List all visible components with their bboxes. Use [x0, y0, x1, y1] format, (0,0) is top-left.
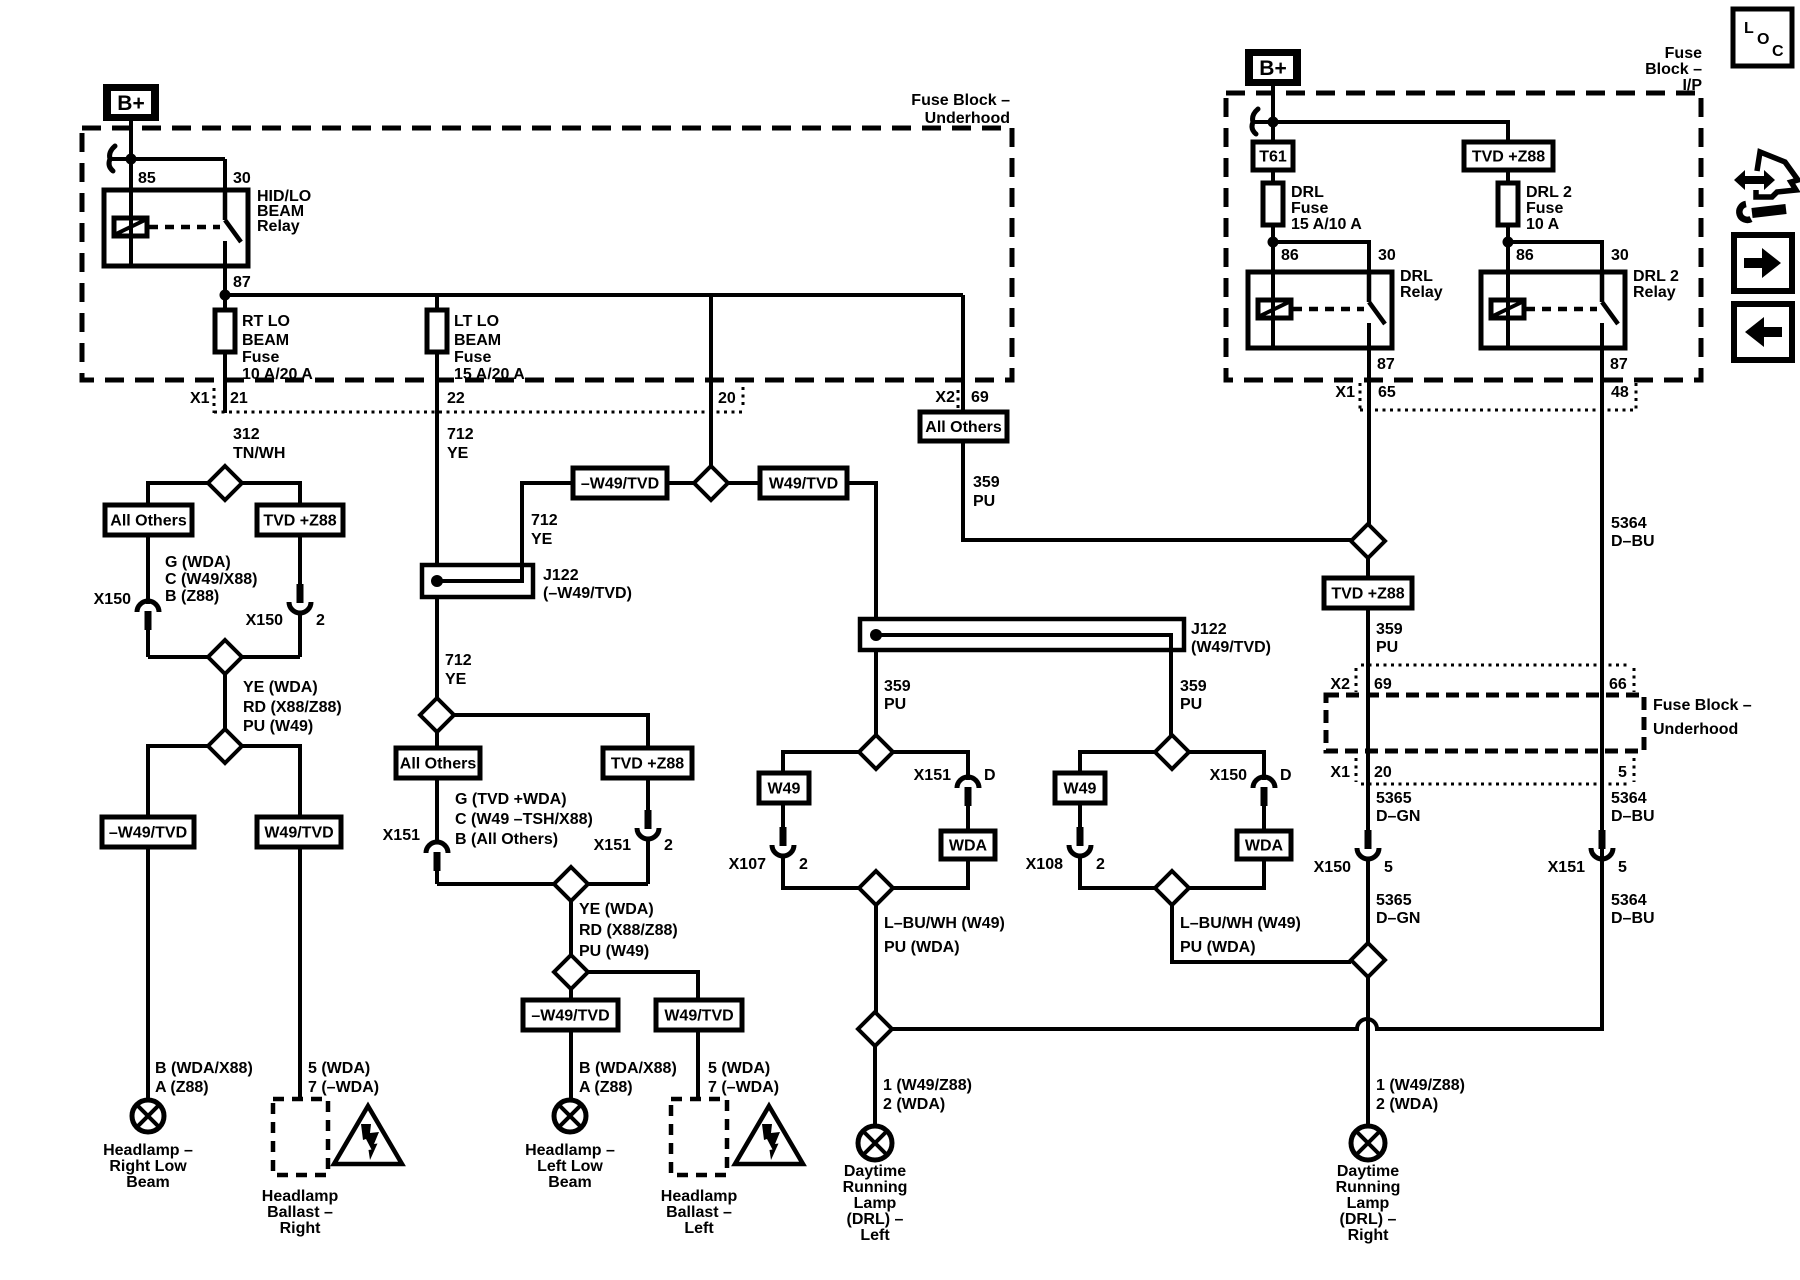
svg-text:2: 2 — [664, 837, 673, 854]
svg-text:5365: 5365 — [1376, 790, 1412, 807]
svg-text:B (WDA/X88): B (WDA/X88) — [579, 1060, 677, 1077]
label DRL 2 Relay — [1633, 268, 1679, 301]
svg-text:PU: PU — [884, 696, 906, 713]
wire bus to RT LO BEAM fuse — [223, 295, 227, 310]
label DRL Relay — [1400, 268, 1443, 301]
label Headlamp Ballast - Left — [661, 1188, 738, 1237]
wire label L-BU/WH PU (right) — [1180, 915, 1301, 956]
bus wire from relay 87 across to X2-69 drop — [225, 293, 963, 297]
svg-text:I/P: I/P — [1682, 77, 1702, 94]
svg-text:Fuse: Fuse — [454, 349, 491, 366]
svg-text:5: 5 — [1618, 859, 1627, 876]
svg-text:TVD +Z88: TVD +Z88 — [611, 756, 684, 773]
svg-text:30: 30 — [1611, 247, 1629, 264]
svg-text:X1: X1 — [1330, 764, 1350, 781]
splice diamond S9 (DRL right) — [1155, 735, 1189, 769]
svg-text:B+: B+ — [117, 92, 144, 115]
wire label 359 PU (left of J122) — [884, 678, 911, 713]
svg-text:2: 2 — [1096, 856, 1105, 873]
svg-text:DRL 2: DRL 2 — [1526, 184, 1572, 201]
svg-text:L–BU/WH (W49): L–BU/WH (W49) — [1180, 915, 1301, 932]
svg-text:1 (W49/Z88): 1 (W49/Z88) — [1376, 1077, 1465, 1094]
wire X151-2 leg to S6 — [587, 882, 648, 886]
svg-text:1 (W49/Z88): 1 (W49/Z88) — [883, 1077, 972, 1094]
svg-text:5 (WDA): 5 (WDA) — [308, 1060, 370, 1077]
svg-text:L: L — [1744, 20, 1754, 37]
option box All Others (top, circuit 359) — [920, 412, 1007, 441]
svg-text:X150: X150 — [246, 612, 283, 629]
wire LT fuse down to J122 splice — [435, 352, 439, 565]
svg-text:J122: J122 — [543, 567, 579, 584]
svg-text:A (Z88): A (Z88) — [155, 1079, 209, 1096]
svg-text:(DRL) –: (DRL) – — [1340, 1211, 1397, 1228]
fuse RT LO BEAM 10A/20A — [215, 310, 313, 383]
svg-text:712: 712 — [447, 426, 474, 443]
wire S9 to X150-D connector — [1189, 752, 1264, 780]
option box -W49/TVD (top middle) — [573, 468, 667, 498]
splice J122 (-W49/TVD) — [422, 483, 573, 597]
connector tick X2-66 — [1633, 668, 1636, 692]
wire W49 to X107 connector — [781, 803, 785, 829]
wire bus drop at terminal 20 — [709, 295, 713, 466]
wire TVD+Z88 to X151-2 — [646, 778, 650, 812]
svg-text:Right: Right — [280, 1220, 322, 1237]
svg-text:RD (X88/Z88): RD (X88/Z88) — [579, 922, 678, 939]
wire S6 to S7 — [569, 900, 573, 956]
svg-text:5365: 5365 — [1376, 892, 1412, 909]
svg-text:T61: T61 — [1259, 149, 1287, 166]
lamp Headlamp Left Low Beam — [554, 1100, 586, 1132]
svg-text:5364: 5364 — [1611, 790, 1647, 807]
svg-text:W49: W49 — [1064, 781, 1097, 798]
option box TVD +Z88 (middle) — [603, 748, 692, 778]
connector X108 terminal 2 — [1026, 827, 1105, 873]
relay DRL 2 — [1481, 272, 1625, 348]
svg-text:PU (WDA): PU (WDA) — [1180, 939, 1256, 956]
terminal label 5/7 (ballast right) — [308, 1060, 379, 1096]
svg-text:7 (–WDA): 7 (–WDA) — [708, 1079, 779, 1096]
connector tick X2-69 (right) — [1355, 668, 1358, 692]
component Headlamp Ballast Left (dashed box) — [671, 1099, 727, 1175]
fuse block underhood enclosure (dashed) — [82, 128, 1012, 380]
svg-text:PU (WDA): PU (WDA) — [884, 939, 960, 956]
option box W49 (left) — [759, 773, 809, 803]
option box WDA (right) — [1237, 831, 1291, 859]
svg-text:C (W49 –TSH/X88): C (W49 –TSH/X88) — [455, 811, 593, 828]
svg-text:359: 359 — [884, 678, 911, 695]
splice diamond S11 (DRL left lamp) — [858, 1012, 892, 1046]
splice diamond S7 — [554, 955, 588, 989]
label Fuse Block - I/P — [1645, 45, 1702, 94]
svg-text:86: 86 — [1516, 247, 1534, 264]
splice diamond S6 — [554, 867, 588, 901]
wire S7 to W49/TVD (lower middle) — [588, 972, 698, 1000]
option box W49/TVD (top middle) — [760, 468, 847, 498]
svg-text:D: D — [984, 767, 996, 784]
splice diamond S8 (DRL left) — [859, 735, 893, 769]
svg-text:2: 2 — [316, 612, 325, 629]
svg-text:Headlamp: Headlamp — [661, 1188, 738, 1205]
label Fuse Block - Underhood (right) — [1653, 697, 1752, 738]
svg-text:2: 2 — [799, 856, 808, 873]
label Headlamp - Right Low Beam — [103, 1142, 193, 1191]
svg-text:TVD +Z88: TVD +Z88 — [263, 513, 336, 530]
svg-text:30: 30 — [1378, 247, 1396, 264]
connector face line X1 strip — [214, 411, 743, 414]
svg-text:All Others: All Others — [925, 419, 1002, 436]
junction DRL2 fuse to pin 30 — [1503, 237, 1514, 248]
svg-text:W49/TVD: W49/TVD — [769, 476, 838, 493]
svg-text:Beam: Beam — [126, 1174, 170, 1191]
svg-text:RT LO: RT LO — [242, 313, 290, 330]
svg-text:Fuse: Fuse — [1291, 200, 1328, 217]
svg-text:5364: 5364 — [1611, 515, 1647, 532]
svg-text:X2: X2 — [1330, 676, 1350, 693]
connector face line X1 (right) — [1361, 783, 1627, 786]
svg-text:Relay: Relay — [1400, 284, 1443, 301]
label J122 (-W49/TVD) — [543, 567, 632, 602]
terminal label 1/2 (DRL right) — [1376, 1077, 1465, 1113]
svg-text:X150: X150 — [1314, 859, 1351, 876]
svg-text:PU: PU — [1376, 639, 1398, 656]
option box All Others (middle) — [396, 748, 480, 778]
svg-text:B (WDA/X88): B (WDA/X88) — [155, 1060, 253, 1077]
splice diamond S14 (DRL right lamp) — [1351, 943, 1385, 977]
svg-text:Underhood: Underhood — [925, 110, 1010, 127]
svg-text:Headlamp –: Headlamp – — [525, 1142, 615, 1159]
wire label 359 PU (right section) — [1376, 621, 1403, 656]
wire label 5365 D-GN (lower) — [1376, 892, 1420, 927]
svg-text:X1: X1 — [190, 390, 210, 407]
wire TVD +Z88 to X150-5 — [1366, 608, 1370, 834]
svg-text:Daytime: Daytime — [844, 1163, 906, 1180]
wire junction to TVD +Z88 fuse feed — [1253, 122, 1508, 142]
svg-text:Fuse Block –: Fuse Block – — [911, 92, 1010, 109]
svg-text:Beam: Beam — [548, 1174, 592, 1191]
svg-text:22: 22 — [447, 390, 465, 407]
wire S2 to S3 — [223, 674, 227, 731]
splice diamond S1 on circuit 312 — [208, 466, 242, 500]
option box WDA (left) — [941, 831, 995, 859]
svg-text:X151: X151 — [914, 767, 951, 784]
svg-text:712: 712 — [445, 652, 472, 669]
svg-text:G (WDA): G (WDA) — [165, 554, 231, 571]
terminal label B/A (right low beam) — [155, 1060, 253, 1096]
connector tick after terminal 20 — [742, 387, 745, 409]
fuse block underhood pass-through (dashed) — [1326, 695, 1644, 751]
wire All Others to X151 connector — [435, 778, 439, 843]
wire label 5364 D-BU (upper) — [1611, 515, 1655, 550]
connector tick X1-21 — [213, 388, 216, 413]
wire S14 to DRL right lamp — [1366, 977, 1370, 1126]
svg-text:(DRL) –: (DRL) – — [847, 1211, 904, 1228]
svg-text:D–BU: D–BU — [1611, 533, 1655, 550]
terminal list G/C/B (left) — [165, 554, 257, 605]
svg-text:15 A/20 A: 15 A/20 A — [454, 366, 525, 383]
svg-text:TVD +Z88: TVD +Z88 — [1472, 149, 1545, 166]
label Daytime Running Lamp (DRL) - Left — [843, 1163, 908, 1244]
wire relay pin 87 down — [223, 266, 227, 295]
connector X151 (middle left) — [383, 827, 448, 871]
option box -W49/TVD (lower middle) — [523, 1000, 618, 1030]
junction node at relay 87 bus — [220, 290, 231, 301]
svg-text:Ballast –: Ballast – — [666, 1204, 732, 1221]
svg-text:X151: X151 — [383, 827, 420, 844]
svg-text:2 (WDA): 2 (WDA) — [883, 1096, 945, 1113]
svg-text:Fuse: Fuse — [1665, 45, 1702, 62]
svg-text:20: 20 — [1374, 764, 1392, 781]
option box -W49/TVD (left) — [102, 817, 194, 847]
fuse DRL2 10A — [1498, 183, 1518, 225]
svg-text:Relay: Relay — [257, 218, 300, 235]
wire junction to DRL2 relay pin 30 — [1508, 242, 1602, 272]
connector X151 terminal 2 (middle) — [594, 810, 673, 854]
lamp Daytime Running Lamp DRL Left — [858, 1126, 892, 1160]
wire label 712 YE (branch) — [531, 512, 558, 548]
svg-text:87: 87 — [233, 274, 251, 291]
tap curl on B+ feed (right) — [1252, 109, 1258, 134]
svg-text:Fuse: Fuse — [242, 349, 279, 366]
terminal label 5/7 (ballast left) — [708, 1060, 779, 1096]
svg-text:DRL 2: DRL 2 — [1633, 268, 1679, 285]
connector X150 terminal D — [1210, 767, 1292, 806]
svg-text:69: 69 — [971, 389, 989, 406]
wire W49 to X108 connector — [1078, 803, 1082, 829]
connector X151 terminal D — [914, 767, 996, 806]
svg-text:B+: B+ — [1259, 57, 1286, 80]
connector X107 terminal 2 — [729, 827, 808, 873]
svg-text:X108: X108 — [1026, 856, 1063, 873]
power symbol B+ (left) — [103, 84, 159, 121]
wire 359 PU through J122 to S8 — [874, 650, 878, 736]
option box W49 (right) — [1055, 773, 1105, 803]
svg-text:(–W49/TVD): (–W49/TVD) — [543, 585, 632, 602]
svg-text:Right: Right — [1348, 1227, 1390, 1244]
svg-text:5: 5 — [1384, 859, 1393, 876]
wire S3 to -W49/TVD box — [148, 746, 208, 817]
wire TVD+Z88 to DRL2 fuse — [1506, 170, 1510, 183]
svg-text:B (All Others): B (All Others) — [455, 831, 558, 848]
fuse LT LO BEAM 15A/20A — [427, 310, 525, 383]
svg-text:5: 5 — [1618, 764, 1627, 781]
svg-text:Underhood: Underhood — [1653, 721, 1738, 738]
power symbol B+ (right) — [1245, 49, 1301, 86]
svg-text:69: 69 — [1374, 676, 1392, 693]
wire label 712 YE (below J122) — [445, 652, 472, 688]
wire S8 to X151-D connector — [893, 752, 968, 780]
wire WDA to S12 — [1189, 859, 1264, 888]
svg-text:312: 312 — [233, 426, 260, 443]
lamp Headlamp Right Low Beam — [132, 1100, 164, 1132]
junction on B+ feed (right) — [1268, 117, 1279, 128]
wire S8 to W49 box — [783, 752, 859, 773]
wire label 359 PU (right of J122) — [1180, 678, 1207, 713]
wire label 359 PU (top) — [973, 474, 1000, 510]
svg-text:D–BU: D–BU — [1611, 808, 1655, 825]
wire X151-D to WDA box — [966, 806, 970, 831]
wire S9a down to S11 — [874, 905, 878, 1012]
splice diamond S5 — [420, 698, 454, 732]
splice diamond S9a — [859, 871, 893, 905]
svg-text:YE: YE — [447, 445, 469, 462]
svg-text:D–BU: D–BU — [1611, 910, 1655, 927]
svg-text:C: C — [1772, 43, 1784, 60]
wire B+ to T61 fuse — [1271, 86, 1275, 142]
svg-text:LT LO: LT LO — [454, 313, 499, 330]
svg-text:YE (WDA): YE (WDA) — [243, 679, 318, 696]
svg-text:YE: YE — [531, 531, 553, 548]
terminal label B/A (left low beam) — [579, 1060, 677, 1096]
svg-text:D–GN: D–GN — [1376, 910, 1420, 927]
wire X151-2 down — [646, 837, 650, 884]
svg-text:Left Low: Left Low — [537, 1158, 603, 1175]
svg-text:X2: X2 — [935, 389, 955, 406]
svg-text:C (W49/X88): C (W49/X88) — [165, 571, 257, 588]
wire label 712 YE (below 22) — [447, 426, 474, 462]
svg-text:J122: J122 — [1191, 621, 1227, 638]
wire RT fuse to connector X1-21 — [223, 352, 227, 413]
wire X107 to S9a — [783, 856, 859, 888]
terminal list G/C/B (middle) — [455, 791, 593, 848]
wire -W49/TVD to S4 — [667, 481, 694, 485]
wire DRL2 relay 87 to connector X1-48 — [1600, 348, 1604, 413]
component Headlamp Ballast Right (dashed box) — [273, 1099, 328, 1175]
label DRL Fuse 15A/10A — [1291, 184, 1362, 233]
tap curl on B+ feed (left) — [109, 146, 115, 171]
wire 712 YE through to S5 — [435, 597, 439, 699]
svg-text:YE (WDA): YE (WDA) — [579, 901, 654, 918]
wire All Others 359 PU to diamond S10 — [963, 441, 1351, 540]
wire X150-5 to diamond S14 — [1366, 859, 1370, 944]
wire X150-2 down — [298, 613, 302, 657]
wire to Headlamp Right Low Beam — [146, 847, 150, 1100]
connector X150 terminal 5 — [1314, 830, 1393, 876]
connector face line X1 (I/P) — [1360, 409, 1636, 412]
wire X150 to splice S2 — [146, 630, 150, 657]
svg-text:Running: Running — [1336, 1179, 1401, 1196]
wire WDA to S9a — [893, 859, 968, 888]
svg-text:X1: X1 — [1335, 384, 1355, 401]
svg-text:712: 712 — [531, 512, 558, 529]
label DRL 2 Fuse 10A — [1526, 184, 1572, 233]
svg-text:(W49/TVD): (W49/TVD) — [1191, 639, 1271, 656]
svg-text:–W49/TVD: –W49/TVD — [581, 476, 659, 493]
svg-text:Left: Left — [860, 1227, 890, 1244]
wire label YE/RD/PU (left) — [243, 679, 342, 735]
wire X150 leg to S2 — [148, 655, 208, 659]
svg-text:10 A/20 A: 10 A/20 A — [242, 366, 313, 383]
connector face line X2 (right) — [1361, 664, 1627, 667]
wire S5 to All Others (middle) — [435, 731, 439, 748]
relay HID/LO BEAM — [104, 190, 248, 266]
connector tick X1-20 — [1355, 758, 1358, 782]
svg-text:PU (W49): PU (W49) — [243, 718, 313, 735]
wire T61 to DRL fuse — [1271, 170, 1275, 183]
svg-text:W49/TVD: W49/TVD — [264, 825, 333, 842]
svg-text:All Others: All Others — [400, 756, 477, 773]
option box W49/TVD (lower middle) — [656, 1000, 742, 1030]
label HID/LO BEAM Relay — [257, 188, 311, 235]
option box TVD +Z88 (left) — [257, 505, 343, 535]
svg-text:X151: X151 — [1548, 859, 1585, 876]
wire label 5364 D-BU (middle) — [1611, 790, 1655, 825]
svg-text:5 (WDA): 5 (WDA) — [708, 1060, 770, 1077]
icon swap arrows with wrench — [1734, 152, 1798, 220]
splice diamond S3 — [208, 729, 242, 763]
svg-text:PU: PU — [973, 493, 995, 510]
wire to Headlamp Ballast Left — [696, 1030, 700, 1099]
svg-text:7 (–WDA): 7 (–WDA) — [308, 1079, 379, 1096]
label Fuse Block - Underhood — [911, 92, 1010, 127]
wire DRL fuse to relay coil 86 — [1271, 225, 1275, 348]
wire S4 to W49/TVD — [728, 481, 760, 485]
svg-text:L–BU/WH (W49): L–BU/WH (W49) — [884, 915, 1005, 932]
icon arrow right box — [1734, 235, 1792, 291]
svg-text:PU (W49): PU (W49) — [579, 943, 649, 960]
svg-text:87: 87 — [1610, 356, 1628, 373]
option box TVD +Z88 (right) — [1324, 578, 1412, 608]
wire S9 to W49 box (right) — [1080, 752, 1155, 773]
svg-text:YE: YE — [445, 671, 467, 688]
svg-text:86: 86 — [1281, 247, 1299, 264]
wire junction to relay pin 30 — [110, 157, 225, 161]
svg-text:D–GN: D–GN — [1376, 808, 1420, 825]
wire X150-2 leg to S2 — [242, 655, 300, 659]
label Daytime Running Lamp (DRL) - Right — [1336, 1163, 1401, 1244]
svg-text:TVD +Z88: TVD +Z88 — [1331, 586, 1404, 603]
wire DRL2 fuse to relay coil 86 — [1506, 225, 1510, 348]
wire S1 to TVD +Z88 box — [242, 483, 300, 505]
connector tick X2-69 — [957, 390, 960, 410]
svg-text:Fuse Block –: Fuse Block – — [1653, 697, 1752, 714]
svg-text:Running: Running — [843, 1179, 908, 1196]
option box TVD +Z88 (I/P) — [1464, 142, 1553, 170]
label Headlamp Ballast - Right — [262, 1188, 339, 1237]
svg-text:66: 66 — [1609, 676, 1627, 693]
svg-text:21: 21 — [230, 390, 248, 407]
connector X151 terminal 5 — [1548, 830, 1627, 876]
svg-text:X151: X151 — [594, 837, 631, 854]
svg-text:Daytime: Daytime — [1337, 1163, 1399, 1180]
wire X151 to S6 — [435, 871, 439, 884]
splice diamond S12 — [1155, 871, 1189, 905]
svg-text:15 A/10 A: 15 A/10 A — [1291, 216, 1362, 233]
svg-text:WDA: WDA — [1245, 838, 1284, 855]
wire W49/TVD box to J122 W49/TVD — [847, 483, 876, 619]
svg-text:2 (WDA): 2 (WDA) — [1376, 1096, 1438, 1113]
connector X150 (left, female) — [94, 591, 159, 630]
fuse block I/P enclosure (dashed) — [1226, 93, 1701, 380]
label Headlamp - Left Low Beam — [525, 1142, 615, 1191]
svg-text:–W49/TVD: –W49/TVD — [531, 1008, 609, 1025]
svg-text:Block –: Block – — [1645, 61, 1702, 78]
option box All Others (left) — [105, 505, 192, 535]
wire S11 to DRL left lamp — [873, 1046, 877, 1126]
splice J122 (W49/TVD) — [860, 619, 1184, 650]
splice diamond S2 — [208, 640, 242, 674]
wire TVD+Z88 to X150-2 connector — [298, 535, 302, 586]
svg-text:X150: X150 — [94, 591, 131, 608]
option box W49/TVD (left) — [257, 817, 341, 847]
svg-text:Relay: Relay — [1633, 284, 1676, 301]
wire label 5364 D-BU (lower) — [1611, 892, 1655, 927]
svg-text:Left: Left — [684, 1220, 714, 1237]
svg-text:85: 85 — [138, 170, 156, 187]
svg-text:X150: X150 — [1210, 767, 1247, 784]
svg-text:DRL: DRL — [1291, 184, 1324, 201]
terminal label 1/2 (DRL left) — [883, 1077, 972, 1113]
warning triangle high voltage (right ballast) — [334, 1106, 402, 1164]
